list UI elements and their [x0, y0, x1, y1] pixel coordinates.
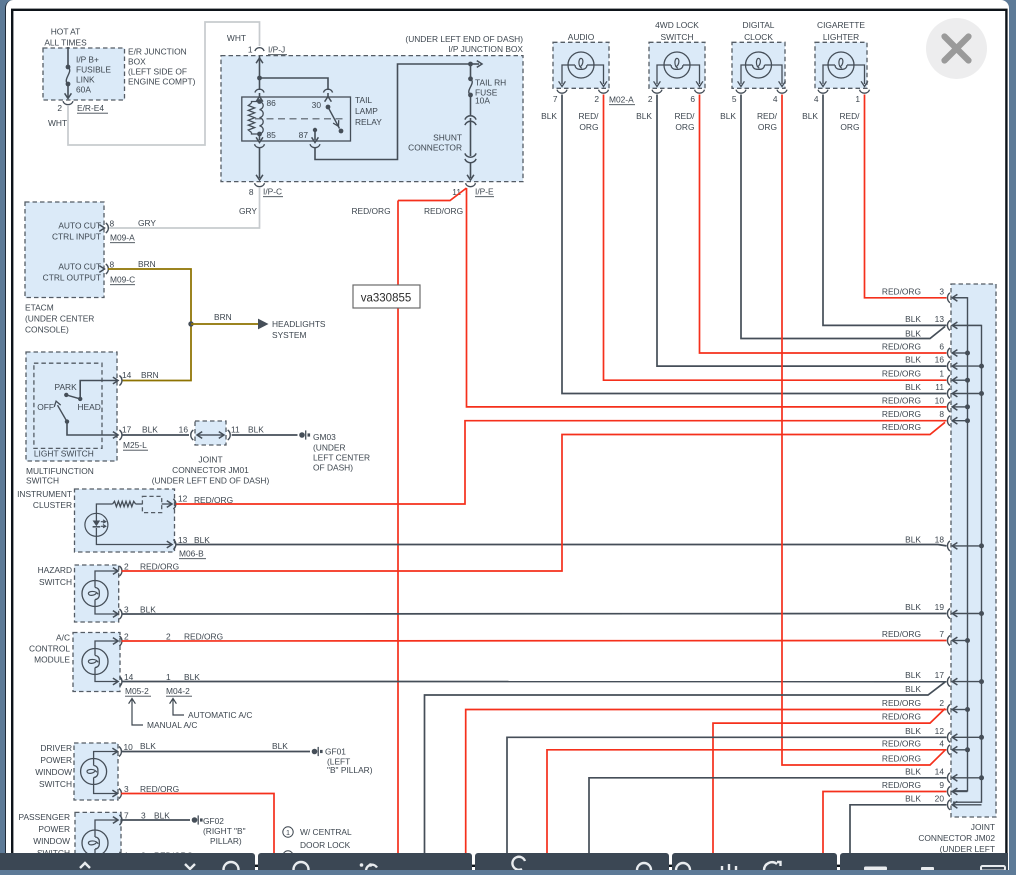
svg-text:BLK: BLK [142, 425, 158, 435]
wire BLK from below to JM02 pin 17 lower [425, 682, 946, 854]
wire RED/ORG I/P-E down to JM02 pin 10 [467, 188, 947, 407]
svg-text:RED/ORG: RED/ORG [882, 369, 921, 379]
svg-text:12: 12 [935, 726, 945, 736]
svg-text:4WD LOCK: 4WD LOCK [655, 20, 699, 30]
svg-text:2: 2 [57, 103, 62, 113]
svg-text:SWITCH: SWITCH [39, 779, 72, 789]
svg-text:3: 3 [124, 784, 129, 794]
svg-text:BLK: BLK [541, 111, 557, 121]
DIGITAL illumination lamp [746, 52, 772, 78]
manual a/c pointer [129, 699, 136, 704]
svg-text:2: 2 [124, 632, 129, 642]
svg-text:6: 6 [939, 342, 944, 352]
relay internal dashed divider [255, 118, 344, 120]
svg-text:86: 86 [267, 98, 277, 108]
wire RED/ORG audio to JM02 pin 1 [604, 95, 947, 381]
svg-text:(LEFT SIDE OF: (LEFT SIDE OF [128, 67, 187, 77]
svg-text:4: 4 [939, 738, 944, 748]
svg-text:14: 14 [122, 370, 132, 380]
a/c illumination lamp [82, 649, 108, 675]
svg-text:M09-C: M09-C [110, 275, 135, 285]
svg-text:(UNDER LEFT END OF DASH): (UNDER LEFT END OF DASH) [405, 34, 523, 44]
svg-text:BLK: BLK [905, 793, 921, 803]
svg-text:RED/ORG: RED/ORG [882, 698, 921, 708]
AUDIO pin 7 [557, 90, 567, 93]
svg-text:RED/ORG: RED/ORG [424, 206, 463, 216]
wire to resistor [96, 504, 112, 513]
JM02 pin 14 [947, 773, 950, 783]
light switch pin 17 M25-L [113, 432, 118, 439]
a/c control module box [73, 633, 120, 692]
LED illumination lamp [85, 513, 108, 536]
wire BRN branch to headlights system [191, 323, 258, 325]
DIGITAL pin 4 [777, 90, 787, 93]
svg-text:ORG: ORG [758, 122, 777, 132]
svg-text:HOT AT: HOT AT [51, 27, 80, 37]
wire lamp to pin 10 [94, 752, 117, 759]
svg-text:1: 1 [855, 94, 860, 104]
svg-text:ORG: ORG [840, 122, 859, 132]
svg-text:MANUAL A/C: MANUAL A/C [147, 720, 197, 730]
svg-text:PARK: PARK [55, 382, 78, 392]
svg-text:RED/ORG: RED/ORG [882, 629, 921, 639]
svg-text:POWER: POWER [38, 824, 70, 834]
svg-text:4: 4 [814, 94, 819, 104]
svg-text:RED/ORG: RED/ORG [882, 409, 921, 419]
svg-text:DIGITAL: DIGITAL [743, 20, 775, 30]
wire BLK pin 17 to JM01 [122, 434, 189, 436]
svg-text:RED/: RED/ [674, 111, 695, 121]
JM02 pin 18 [947, 541, 950, 551]
svg-text:8: 8 [249, 187, 254, 197]
svg-text:1: 1 [286, 828, 290, 837]
arrow to HEADLIGHTS SYSTEM [258, 319, 269, 330]
relay pin 30 arrow [325, 97, 332, 102]
wire BLK from below to JM02 pin 20 [850, 805, 947, 854]
svg-text:BLK: BLK [248, 425, 264, 435]
svg-text:17: 17 [122, 425, 132, 435]
cluster pin 12 [167, 501, 172, 508]
svg-text:BLK: BLK [140, 741, 156, 751]
svg-text:"B" PILLAR): "B" PILLAR) [327, 765, 373, 775]
svg-text:8: 8 [939, 409, 944, 419]
svg-text:7: 7 [124, 811, 129, 821]
svg-text:I/P B+: I/P B+ [76, 55, 99, 65]
tail lamp relay U-relay box [242, 97, 351, 141]
svg-text:RED/: RED/ [757, 111, 778, 121]
svg-text:JOINT: JOINT [198, 455, 222, 465]
CIGARETTE internal wires to pins [823, 65, 828, 84]
svg-text:(RIGHT "B": (RIGHT "B" [203, 826, 246, 836]
wire relay 85 to pin 8 I/P-C [259, 148, 261, 178]
svg-text:2: 2 [939, 698, 944, 708]
CIGARETTE pin 1 [860, 90, 870, 93]
driver illumination lamp [81, 759, 107, 785]
wire lamp to pin 1 [95, 856, 117, 857]
passenger pin 7 [113, 817, 118, 824]
wire lamp to pin 13 [96, 536, 171, 544]
svg-text:M25-L: M25-L [123, 440, 147, 450]
svg-text:JOINT: JOINT [971, 822, 995, 832]
wire BLK clock to JM02 pin 13 lower [741, 95, 945, 339]
svg-text:LIGHTER: LIGHTER [823, 32, 859, 42]
svg-text:POWER: POWER [40, 755, 72, 765]
rheostat dashed box [136, 503, 143, 505]
a/c pin 14 M05-2 [113, 678, 118, 685]
svg-text:I/P-J: I/P-J [268, 45, 285, 55]
wire HEAD contact to pin 14 [80, 381, 117, 399]
svg-text:18: 18 [935, 534, 945, 544]
JM02 pin 13 [947, 320, 950, 330]
svg-text:AUTO CUT: AUTO CUT [58, 221, 101, 231]
svg-text:GF02: GF02 [203, 816, 224, 826]
svg-text:7: 7 [939, 629, 944, 639]
svg-text:DOOR LOCK: DOOR LOCK [300, 840, 351, 850]
svg-text:WINDOW: WINDOW [35, 767, 72, 777]
svg-text:(UNDER CENTER: (UNDER CENTER [25, 314, 94, 324]
node BRN junction [188, 321, 193, 326]
wire WHT from E/R-E4 to I/P-J [68, 22, 260, 145]
ETACM pin 8 M09-C [99, 266, 104, 273]
svg-text:OFF: OFF [37, 402, 54, 412]
svg-text:HEADLIGHTS: HEADLIGHTS [272, 319, 326, 329]
svg-text:2: 2 [648, 94, 653, 104]
svg-text:CLUSTER: CLUSTER [33, 500, 72, 510]
svg-text:13: 13 [178, 535, 188, 545]
svg-text:BLK: BLK [905, 382, 921, 392]
svg-text:WHT: WHT [227, 33, 246, 43]
svg-text:CTRL OUTPUT: CTRL OUTPUT [43, 273, 101, 283]
wire BLK lighter to JM02 pin 13 [823, 95, 947, 326]
svg-text:BRN: BRN [214, 312, 232, 322]
passenger pin 1 [113, 854, 118, 861]
svg-text:OF DASH): OF DASH) [313, 463, 353, 473]
relay pin 87 [313, 128, 317, 132]
svg-text:M05-2: M05-2 [125, 686, 149, 696]
svg-text:85: 85 [267, 130, 277, 140]
wire RED/ORG 4wd to JM02 pin 6 [700, 95, 947, 354]
svg-text:GRY: GRY [138, 218, 156, 228]
svg-text:AUDIO: AUDIO [568, 32, 595, 42]
svg-text:CONNECTOR: CONNECTOR [408, 143, 462, 153]
wire lamp to pin 3 [94, 785, 117, 794]
svg-text:TAIL: TAIL [355, 95, 372, 105]
svg-text:A/C: A/C [56, 633, 70, 643]
wire relay 87 to tail fuse node [315, 64, 469, 160]
switch wiper arm pointing at OFF [65, 419, 69, 423]
wire lamp to pin 3 [95, 607, 117, 615]
AUDIO internal wires to pins [562, 65, 568, 84]
svg-text:BOX: BOX [128, 57, 146, 67]
relay switch contact from 30 [326, 105, 331, 110]
svg-text:2: 2 [124, 562, 129, 572]
wire RED/ORG clock to JM02 pin 4 lower [782, 95, 945, 766]
JM02 pin 12 [947, 732, 950, 742]
ETACM module box [25, 202, 104, 298]
svg-text:6: 6 [690, 94, 695, 104]
svg-text:W/ CENTRAL: W/ CENTRAL [300, 827, 352, 837]
wire lamp to pin 14 [95, 675, 117, 682]
connector arcs below relay [255, 144, 265, 147]
svg-text:ALL TIMES: ALL TIMES [44, 38, 87, 48]
passenger power window switch box [75, 812, 121, 862]
svg-text:GRY: GRY [239, 206, 257, 216]
svg-text:GM03: GM03 [313, 432, 336, 442]
wire BLK from below to JM02 pin 14 [589, 778, 947, 854]
svg-text:va330855: va330855 [361, 293, 412, 305]
svg-text:TAIL RH: TAIL RH [475, 78, 506, 88]
svg-text:CTRL INPUT: CTRL INPUT [52, 232, 101, 242]
wire RED/ORG from below to JM02 pin 4 [547, 750, 947, 854]
CIGARETTE pin 4 [818, 90, 828, 93]
svg-text:BLK: BLK [905, 314, 921, 324]
4WD LOCK pin 2 [652, 90, 662, 93]
svg-text:BLK: BLK [802, 111, 818, 121]
note 2 [283, 851, 293, 861]
svg-text:BLK: BLK [140, 605, 156, 615]
svg-text:11: 11 [231, 425, 240, 435]
wire BLK 4wd to JM02 pin 16 [657, 95, 947, 367]
relay pin 85 [259, 134, 261, 140]
tail RH fuse 10A [470, 64, 472, 79]
svg-text:BLK: BLK [905, 766, 921, 776]
wire RED/ORG from below to JM02 pin 2 [466, 710, 947, 855]
svg-text:I/P JUNCTION BOX: I/P JUNCTION BOX [448, 44, 523, 54]
wire pin1 to relay pin 86 [259, 56, 261, 90]
svg-text:BLK: BLK [184, 672, 200, 682]
svg-text:19: 19 [935, 602, 945, 612]
svg-text:PASSENGER: PASSENGER [18, 812, 70, 822]
4WD LOCK pin 6 [695, 90, 705, 93]
ground GM03 [299, 432, 305, 438]
svg-text:BLK: BLK [905, 602, 921, 612]
svg-text:RED/ORG: RED/ORG [882, 754, 921, 764]
wire BLK audio to JM02 pin 11 [562, 95, 947, 394]
svg-text:M09-A: M09-A [110, 233, 135, 243]
svg-text:13: 13 [935, 314, 945, 324]
wire RED/ORG from below to JM02 pin 9 [823, 792, 947, 855]
svg-text:M04-2: M04-2 [166, 686, 190, 696]
wire RED/ORG from below to JM02 pin 2 lower [713, 709, 945, 854]
svg-text:LAMP: LAMP [355, 106, 378, 116]
diagram id tag va330855 [353, 285, 420, 308]
svg-text:E/R JUNCTION: E/R JUNCTION [128, 47, 187, 57]
svg-text:ENGINE COMPT): ENGINE COMPT) [128, 77, 196, 87]
JM02 pin 3 [947, 293, 950, 303]
svg-text:DRIVER: DRIVER [40, 743, 72, 753]
svg-text:BLK: BLK [905, 534, 921, 544]
svg-text:17: 17 [935, 670, 945, 680]
svg-text:14: 14 [124, 672, 134, 682]
light switch pin 14 [113, 377, 118, 384]
wire branch to relay pin 30 [260, 78, 329, 90]
svg-text:1: 1 [166, 672, 171, 682]
svg-text:1: 1 [939, 369, 944, 379]
svg-text:AUTOMATIC A/C: AUTOMATIC A/C [188, 710, 252, 720]
light switch inner box [34, 363, 102, 448]
svg-text:SWITCH: SWITCH [26, 476, 59, 486]
connector arcs above relay [255, 89, 264, 92]
wire lamp to pin 2 [95, 571, 117, 581]
wire RED/ORG pin 12 to JM02 pin 8 [176, 421, 947, 504]
JM02 pin 9 [947, 787, 950, 797]
svg-text:BLK: BLK [905, 684, 921, 694]
svg-text:RED/ORG: RED/ORG [140, 784, 179, 794]
JM02 pin 20 [947, 800, 950, 810]
svg-text:SWITCH: SWITCH [660, 32, 693, 42]
driver pin 3 [112, 790, 117, 797]
node junction above relay [257, 76, 262, 81]
wire RED/ORG a/c 2 to JM02 pin 7 [122, 640, 947, 643]
svg-text:16: 16 [935, 355, 945, 365]
driver pin 10 [112, 748, 117, 755]
svg-text:AUTO CUT: AUTO CUT [58, 262, 101, 272]
svg-text:11: 11 [935, 382, 944, 392]
hazard pin 3 [113, 611, 118, 618]
wire RED/ORG long vertical to bottom [397, 201, 399, 855]
pin 1 I/P-J [255, 48, 264, 51]
svg-text:16: 16 [179, 425, 189, 435]
svg-text:1: 1 [248, 45, 253, 55]
svg-text:BLK: BLK [905, 329, 921, 339]
svg-text:M06-B: M06-B [179, 549, 204, 559]
svg-text:RED/ORG: RED/ORG [882, 712, 921, 722]
svg-text:RED/ORG: RED/ORG [882, 395, 921, 405]
svg-text:RED/: RED/ [839, 111, 860, 121]
svg-text:ORG: ORG [675, 122, 694, 132]
svg-text:HAZARD: HAZARD [38, 565, 72, 575]
E/R junction box [43, 48, 125, 100]
joint connector JM01 [195, 421, 226, 445]
svg-text:RED/: RED/ [578, 111, 599, 121]
JM02 pin 6 [947, 348, 950, 358]
svg-text:LEFT CENTER: LEFT CENTER [313, 453, 370, 463]
svg-text:HEAD: HEAD [78, 402, 101, 412]
svg-text:WINDOW: WINDOW [33, 836, 70, 846]
svg-text:RED/ORG: RED/ORG [882, 342, 921, 352]
svg-text:12: 12 [178, 494, 188, 504]
svg-text:E/R-E4: E/R-E4 [77, 103, 104, 113]
svg-text:SWITCH: SWITCH [39, 577, 72, 587]
node tail fuse feed with arrow [468, 62, 473, 67]
wire BLK pin 10 to GF01 [121, 751, 310, 753]
svg-text:BLK: BLK [272, 741, 288, 751]
pin 2 E/R-E4 [63, 101, 73, 104]
svg-text:CIGARETTE: CIGARETTE [817, 20, 865, 30]
svg-text:RED/ORG: RED/ORG [140, 562, 179, 572]
svg-text:WHT: WHT [48, 118, 67, 128]
svg-text:SYSTEM: SYSTEM [272, 330, 306, 340]
svg-text:BLK: BLK [720, 111, 736, 121]
wire lamp to pin 2 [95, 641, 117, 649]
relay coil and resistor [257, 99, 262, 104]
AUDIO pin 2 [599, 90, 609, 93]
joint connector JM02 box [951, 284, 996, 817]
wire BLK a/c 14 to JM02 pin 17 [122, 681, 947, 683]
JM02 pin 11 [947, 389, 950, 399]
svg-text:BLK: BLK [194, 535, 210, 545]
svg-text:MODULE: MODULE [34, 655, 70, 665]
JM02 bus 2 [953, 325, 982, 802]
svg-text:RELAY: RELAY [355, 117, 382, 127]
svg-text:LINK: LINK [76, 75, 95, 85]
DIGITAL pin 5 [736, 90, 746, 93]
ground GF02 [192, 817, 198, 823]
wire BLK hazard 3 to JM02 pin 19 [122, 613, 947, 616]
wire BLK JM01 to GM03 [232, 434, 298, 436]
svg-text:PILLAR): PILLAR) [210, 836, 242, 846]
wire BLK pin 7 to GF02 [122, 819, 190, 821]
4WD LOCK illumination lamp [664, 52, 690, 78]
wire BLK from below to JM02 pin 12 [507, 737, 947, 854]
svg-text:RED/ORG: RED/ORG [882, 738, 921, 748]
a/c pin 2 [113, 638, 118, 645]
svg-text:CONSOLE): CONSOLE) [25, 325, 69, 335]
svg-text:(UNDER LEFT END OF DASH): (UNDER LEFT END OF DASH) [152, 476, 270, 486]
svg-text:M02-A: M02-A [609, 95, 634, 105]
wire RED/ORG hazard 2 to JM02 pin 8 lower [122, 422, 945, 571]
svg-text:MULTIFUNCTION: MULTIFUNCTION [26, 466, 94, 476]
pin 8 I/P-C [255, 183, 265, 186]
svg-text:30: 30 [312, 100, 322, 110]
hazard switch box [75, 565, 119, 622]
4WD LOCK internal wires to pins [657, 65, 664, 84]
svg-text:RED/ORG: RED/ORG [882, 422, 921, 432]
instrument cluster box [75, 489, 175, 552]
pin 11 I/P-E [466, 183, 476, 186]
svg-text:8: 8 [110, 260, 115, 270]
svg-text:RED/ORG: RED/ORG [184, 632, 223, 642]
JM02 bus 1 [953, 298, 968, 791]
svg-text:BLK: BLK [905, 355, 921, 365]
JM02 pin 8 [947, 416, 950, 426]
hazard illumination lamp [82, 581, 108, 607]
wire RED/ORG lighter to JM02 pin 3 [865, 95, 947, 298]
svg-text:87: 87 [299, 130, 309, 140]
switch contact PARK [64, 393, 68, 397]
JM02 pin 1 [947, 375, 950, 385]
wire RED/ORG I/P-E to left vertical [398, 188, 467, 201]
relay pin 86 arrow [256, 97, 263, 102]
svg-text:I/P-C: I/P-C [263, 187, 282, 197]
svg-text:RED/ORG: RED/ORG [352, 206, 391, 216]
svg-text:RED/ORG: RED/ORG [882, 780, 921, 790]
DIGITAL internal wires to pins [741, 65, 746, 84]
JM02 pin 10 [947, 402, 950, 412]
wire BLK pin 13 to JM02 pin 18 [176, 545, 947, 546]
svg-text:9: 9 [939, 780, 944, 790]
fusible link I/P B+ 60A [66, 65, 71, 70]
svg-text:FUSIBLE: FUSIBLE [76, 65, 111, 75]
JM02 pin 4 [947, 745, 950, 755]
wire from HOT AT into box [67, 47, 69, 67]
svg-text:ETACM: ETACM [25, 303, 54, 313]
JM02 pin 2 [947, 705, 950, 715]
svg-text:(UNDER: (UNDER [313, 443, 346, 453]
svg-text:CONNECTOR JM01: CONNECTOR JM01 [172, 465, 249, 475]
automatic a/c pointer [170, 699, 177, 704]
shunt connector [465, 116, 476, 120]
wire RED/ORG driver 3 down [121, 794, 274, 855]
svg-text:GF01: GF01 [325, 747, 346, 757]
svg-text:10A: 10A [475, 96, 490, 106]
wire BRN from M09-C to light switch pin 14 [108, 269, 191, 381]
svg-text:CLOCK: CLOCK [744, 32, 773, 42]
svg-text:RED/ORG: RED/ORG [882, 286, 921, 296]
wire wiper to pin 17 [67, 422, 117, 435]
driver power window switch box [74, 743, 118, 800]
svg-text:BRN: BRN [141, 370, 159, 380]
